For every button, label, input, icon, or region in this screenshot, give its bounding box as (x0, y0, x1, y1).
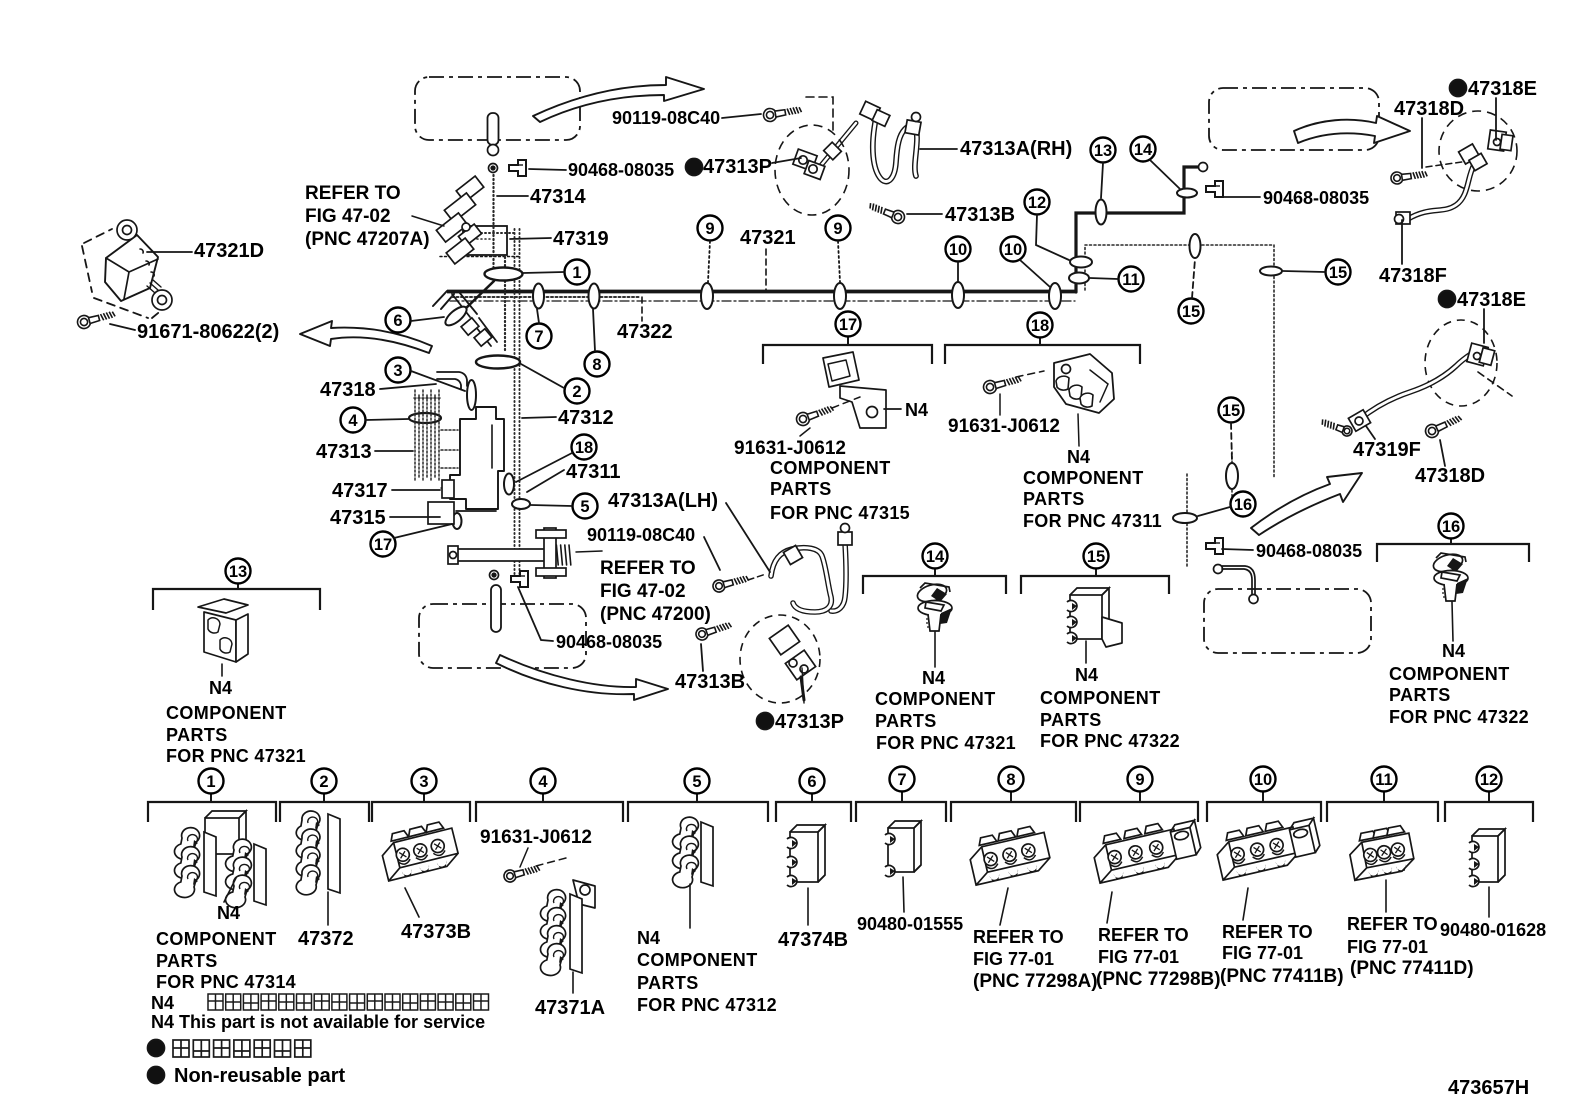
svg-text:5: 5 (580, 498, 589, 516)
svg-text:7: 7 (534, 328, 543, 346)
svg-text:91671-80622(2): 91671-80622(2) (137, 321, 279, 343)
svg-text:90468-08035: 90468-08035 (1256, 541, 1362, 561)
svg-text:COMPONENT: COMPONENT (1040, 688, 1161, 708)
svg-text:90480-01628: 90480-01628 (1440, 920, 1546, 940)
svg-text:(PNC 47207A): (PNC 47207A) (305, 229, 430, 250)
svg-text:REFER TO: REFER TO (1347, 914, 1438, 934)
svg-text:REFER TO: REFER TO (305, 183, 401, 204)
svg-text:N4 This part is not available: N4 This part is not available for servic… (151, 1012, 485, 1032)
svg-text:REFER TO: REFER TO (973, 927, 1064, 947)
svg-text:47321D: 47321D (194, 240, 264, 262)
svg-text:10: 10 (1254, 771, 1272, 789)
svg-text:REFER TO: REFER TO (600, 558, 696, 579)
svg-text:COMPONENT: COMPONENT (1389, 664, 1510, 684)
svg-text:N4: N4 (637, 928, 660, 948)
svg-text:15: 15 (1182, 303, 1200, 321)
svg-text:14: 14 (1134, 141, 1153, 159)
svg-text:FOR PNC 47321: FOR PNC 47321 (876, 733, 1016, 753)
svg-text:5: 5 (692, 773, 701, 791)
svg-text:4: 4 (538, 773, 548, 791)
svg-text:1: 1 (572, 264, 581, 282)
svg-text:FIG 47-02: FIG 47-02 (305, 206, 391, 227)
svg-text:15: 15 (1222, 402, 1240, 420)
svg-text:473657H: 473657H (1448, 1077, 1529, 1099)
svg-text:16: 16 (1234, 496, 1252, 514)
svg-text:(PNC 77298B): (PNC 77298B) (1096, 969, 1221, 990)
svg-text:FIG 77-01: FIG 77-01 (1347, 937, 1428, 957)
svg-text:47313B: 47313B (945, 204, 1015, 226)
svg-text:47372: 47372 (298, 928, 354, 950)
svg-text:COMPONENT: COMPONENT (637, 950, 758, 970)
svg-text:(PNC 77411B): (PNC 77411B) (1220, 966, 1344, 987)
svg-text:PARTS: PARTS (1389, 685, 1451, 705)
svg-text:N4: N4 (1075, 665, 1098, 685)
svg-text:47311: 47311 (566, 461, 621, 483)
svg-text:PARTS: PARTS (875, 711, 937, 731)
svg-text:47319: 47319 (553, 228, 609, 250)
svg-text:17: 17 (839, 316, 857, 334)
svg-text:COMPONENT: COMPONENT (875, 689, 996, 709)
svg-text:8: 8 (592, 356, 601, 374)
svg-text:47318E: 47318E (1457, 289, 1526, 311)
svg-text:91631-J0612: 91631-J0612 (734, 438, 846, 459)
svg-text:47313: 47313 (316, 441, 372, 463)
svg-text:47313P: 47313P (703, 156, 772, 178)
svg-text:(PNC 47200): (PNC 47200) (600, 604, 711, 625)
svg-text:18: 18 (1031, 317, 1049, 335)
svg-text:COMPONENT: COMPONENT (156, 929, 277, 949)
svg-text:PARTS: PARTS (1040, 710, 1102, 730)
svg-text:47322: 47322 (617, 321, 673, 343)
svg-text:47318D: 47318D (1394, 98, 1464, 120)
svg-text:90119-08C40: 90119-08C40 (612, 108, 720, 128)
svg-text:FOR PNC 47314: FOR PNC 47314 (156, 972, 296, 992)
svg-text:47313P: 47313P (775, 711, 844, 733)
svg-text:18: 18 (575, 439, 593, 457)
svg-text:6: 6 (393, 312, 402, 330)
svg-text:COMPONENT: COMPONENT (770, 458, 891, 478)
svg-text:N4: N4 (151, 993, 174, 1013)
svg-text:47315: 47315 (330, 507, 386, 529)
svg-text:47317: 47317 (332, 480, 388, 502)
svg-text:PARTS: PARTS (770, 479, 832, 499)
svg-text:2: 2 (319, 773, 328, 791)
svg-text:(PNC 77298A): (PNC 77298A) (973, 971, 1098, 992)
svg-text:(PNC 77411D): (PNC 77411D) (1350, 958, 1474, 979)
svg-text:FOR PNC 47321: FOR PNC 47321 (166, 746, 306, 766)
svg-text:FIG 47-02: FIG 47-02 (600, 581, 686, 602)
svg-text:PARTS: PARTS (1023, 489, 1085, 509)
svg-text:17: 17 (374, 536, 392, 554)
svg-text:4: 4 (348, 412, 358, 430)
svg-text:PARTS: PARTS (166, 725, 228, 745)
svg-text:10: 10 (1004, 241, 1022, 259)
svg-text:15: 15 (1329, 264, 1347, 282)
svg-text:N4: N4 (209, 678, 232, 698)
svg-text:PARTS: PARTS (156, 951, 218, 971)
svg-text:11: 11 (1375, 771, 1392, 789)
svg-text:47318: 47318 (320, 379, 376, 401)
svg-text:2: 2 (572, 383, 581, 401)
svg-text:14: 14 (926, 548, 945, 566)
svg-text:1: 1 (206, 773, 215, 791)
svg-text:47373B: 47373B (401, 921, 471, 943)
svg-text:47371A: 47371A (535, 997, 605, 1019)
svg-text:47318E: 47318E (1468, 78, 1537, 100)
svg-text:9: 9 (705, 220, 714, 238)
svg-text:15: 15 (1087, 548, 1105, 566)
svg-text:13: 13 (229, 563, 247, 581)
svg-text:47313A(RH): 47313A(RH) (960, 138, 1072, 160)
svg-text:47312: 47312 (558, 407, 614, 429)
svg-text:12: 12 (1028, 194, 1046, 212)
svg-text:47313A(LH): 47313A(LH) (608, 490, 718, 512)
svg-text:PARTS: PARTS (637, 973, 699, 993)
svg-text:FIG 77-01: FIG 77-01 (1222, 943, 1303, 963)
svg-text:FIG 77-01: FIG 77-01 (973, 949, 1054, 969)
svg-text:FOR PNC 47322: FOR PNC 47322 (1389, 707, 1529, 727)
svg-text:10: 10 (949, 241, 967, 259)
svg-text:REFER TO: REFER TO (1222, 922, 1313, 942)
svg-text:6: 6 (807, 773, 816, 791)
svg-text:COMPONENT: COMPONENT (166, 703, 287, 723)
svg-text:11: 11 (1122, 271, 1139, 289)
svg-text:90468-08035: 90468-08035 (1263, 188, 1369, 208)
svg-text:FOR PNC 47312: FOR PNC 47312 (637, 995, 777, 1015)
svg-text:7: 7 (897, 771, 906, 789)
svg-text:9: 9 (833, 220, 842, 238)
svg-text:N4: N4 (922, 668, 945, 688)
svg-text:8: 8 (1006, 771, 1015, 789)
svg-text:91631-J0612: 91631-J0612 (480, 827, 592, 848)
svg-text:47314: 47314 (530, 186, 586, 208)
svg-text:FOR PNC 47322: FOR PNC 47322 (1040, 731, 1180, 751)
svg-text:3: 3 (393, 362, 402, 380)
svg-text:47374B: 47374B (778, 929, 848, 951)
svg-text:N4: N4 (217, 903, 240, 923)
svg-text:13: 13 (1094, 142, 1112, 160)
svg-text:FOR PNC 47311: FOR PNC 47311 (1023, 511, 1162, 531)
svg-text:90468-08035: 90468-08035 (568, 160, 674, 180)
svg-text:12: 12 (1480, 771, 1498, 789)
svg-text:3: 3 (419, 773, 428, 791)
svg-text:47318D: 47318D (1415, 465, 1485, 487)
svg-text:N4: N4 (1067, 447, 1090, 467)
svg-text:91631-J0612: 91631-J0612 (948, 416, 1060, 437)
svg-text:47319F: 47319F (1353, 439, 1421, 461)
svg-text:REFER TO: REFER TO (1098, 925, 1189, 945)
svg-text:COMPONENT: COMPONENT (1023, 468, 1144, 488)
svg-text:90119-08C40: 90119-08C40 (587, 525, 695, 545)
svg-text:FIG 77-01: FIG 77-01 (1098, 947, 1179, 967)
svg-text:47318F: 47318F (1379, 265, 1447, 287)
svg-text:9: 9 (1135, 771, 1144, 789)
svg-text:N4: N4 (1442, 641, 1465, 661)
svg-text:90480-01555: 90480-01555 (857, 914, 963, 934)
svg-text:47313B: 47313B (675, 671, 745, 693)
svg-text:16: 16 (1442, 518, 1460, 536)
svg-text:N4: N4 (905, 400, 928, 420)
svg-text:Non-reusable part: Non-reusable part (174, 1065, 345, 1087)
svg-text:47321: 47321 (740, 227, 796, 249)
svg-text:FOR PNC 47315: FOR PNC 47315 (770, 503, 910, 523)
svg-text:90468-08035: 90468-08035 (556, 632, 662, 652)
